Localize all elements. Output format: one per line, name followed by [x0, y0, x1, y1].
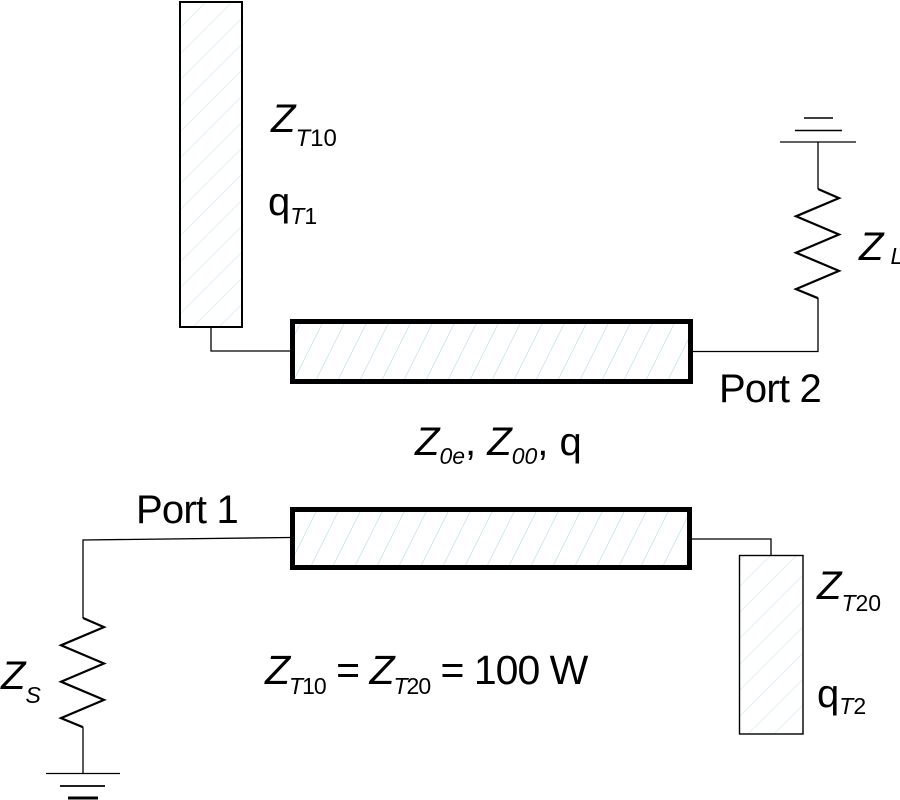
wire Port 1 node to coupled line and down to ZS: [83, 538, 290, 619]
wire ZS to ground: [82, 727, 84, 773]
coupled line section (bottom, thick hatched bar): [293, 510, 690, 568]
wire stub ZT1 to coupled line: [211, 328, 290, 352]
svg-text:Port 2: Port 2: [719, 367, 821, 411]
wire ZL to ground: [817, 142, 819, 189]
transmission-line stub ZT2 (bottom right, hatched): [740, 556, 804, 735]
coupled line section (top, thick hatched bar): [293, 322, 691, 382]
wire coupled line to ZL: [693, 298, 818, 352]
wire coupled line to stub ZT2: [692, 539, 771, 555]
ground (top right): [780, 118, 856, 142]
resistor ZL: [796, 189, 839, 298]
svg-text:Port 1: Port 1: [136, 488, 238, 532]
ground (bottom left): [46, 774, 120, 799]
svg-text:Z0e, Z00, q: Z0e, Z00, q: [414, 420, 582, 469]
transmission-line stub ZT1 (top left, hatched): [180, 2, 242, 327]
resistor ZS: [61, 618, 104, 727]
